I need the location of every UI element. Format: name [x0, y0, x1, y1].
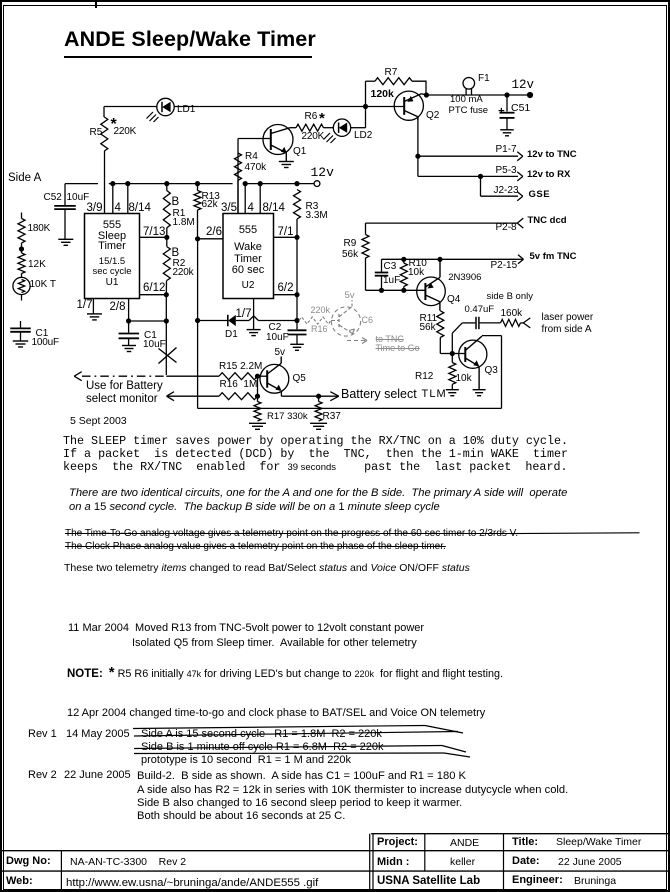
label 160k: [501, 309, 523, 320]
ground R37: [310, 423, 327, 429]
label 10uF C52: [67, 193, 90, 204]
label 3.3M: [306, 211, 328, 222]
label R12: [415, 372, 433, 383]
wire Q3 collector loop: [198, 336, 502, 409]
connector laser power fork: [523, 318, 530, 328]
label laser power: [542, 313, 594, 324]
label R15 2.2M: [219, 362, 262, 373]
label 7/1: [278, 226, 294, 238]
strike lines Rev1 side A: [133, 726, 463, 737]
ghost transistor Q6 (erased): [331, 300, 361, 336]
wire Q1 base from R4: [238, 139, 264, 154]
resistor R16: [219, 393, 258, 400]
label J2-23: [494, 186, 519, 197]
label Midn: [377, 857, 409, 869]
ground R12: [446, 390, 459, 396]
label 0.47uF: [465, 305, 495, 315]
label 56k R9: [342, 250, 358, 261]
value Bruninga: [574, 876, 616, 887]
label R1: [173, 209, 186, 220]
value ANDE: [450, 838, 479, 849]
value web url: [66, 877, 318, 889]
label Q5: [293, 374, 306, 385]
label 5v Q5: [275, 348, 286, 359]
diode D1: [228, 315, 236, 327]
wire D1 to hop: [236, 320, 249, 322]
transistor Q1: [263, 125, 293, 162]
junction dot 7/13-R1-R2: [164, 235, 169, 240]
label Use for Battery: [86, 380, 163, 392]
label Q2: [426, 111, 439, 122]
resistor R9: [362, 223, 369, 290]
label 120k R7: [371, 89, 394, 100]
label from side A: [542, 325, 592, 336]
capacitor C2: [288, 321, 307, 345]
label Date: [512, 856, 540, 868]
wire U1 pin6/12: [140, 294, 167, 296]
fuse F1: [463, 78, 475, 96]
label Dwg No: [6, 856, 51, 868]
paragraph two identical circuits (italic): [69, 487, 567, 514]
junction dot R10 bottom: [401, 288, 406, 293]
node 12v open circle: [314, 181, 320, 187]
label 56k R11: [420, 323, 436, 334]
label F1: [478, 74, 490, 85]
label LD1: [177, 105, 195, 116]
capacitor C51: [500, 95, 515, 130]
resistor R17: [254, 401, 261, 421]
label 12v top: [512, 79, 535, 93]
label 12v mid: [311, 166, 334, 180]
wire hop to C2: [258, 320, 297, 322]
resistor 180K: [18, 219, 25, 250]
label R6 asterisk: [319, 111, 325, 127]
telemetry changed note: [64, 563, 470, 574]
resistor R11: [437, 311, 453, 354]
label R11: [420, 314, 438, 325]
transistor Q4: [417, 259, 446, 311]
date 5 Sept 2003: [70, 416, 127, 427]
resistor R37: [315, 396, 322, 421]
wire U1 pin7/13: [140, 236, 167, 238]
junction dot Q2 emitter node: [424, 92, 429, 97]
strike line extension telemetry: [510, 532, 640, 535]
wire Q2 collector down: [417, 117, 419, 177]
junction dot 6/2: [294, 292, 299, 297]
wire R15/R16 junction vertical: [257, 376, 259, 401]
label 5v fm TNC: [530, 252, 577, 262]
ghost label 220k: [311, 306, 331, 316]
value Sleep/Wake Timer: [556, 837, 641, 848]
wire Q3 base: [452, 353, 465, 355]
capacitor 0.47uF: [462, 317, 500, 329]
label 8/14 U1: [129, 202, 151, 214]
junction dot C2 node: [294, 318, 299, 323]
junction dot C1 right: [164, 318, 169, 323]
junction dot J2-23 branch: [478, 174, 483, 179]
junction dot R13: [195, 181, 200, 186]
resistor R3: [294, 190, 301, 238]
label 1/7 U1: [77, 299, 93, 311]
ground Q3 emitter: [473, 390, 486, 396]
Rev 2 row: [28, 770, 57, 782]
label Q4: [447, 295, 460, 306]
note 11 Mar 2004: [68, 623, 424, 635]
ground U1 pin1/7: [87, 314, 102, 320]
label Battery select: [341, 388, 417, 402]
junction dot C51: [504, 92, 509, 97]
ground Q1 emitter: [279, 162, 294, 168]
resistor R2: [163, 237, 170, 294]
transistor Q5: [258, 357, 289, 394]
label R2: [173, 259, 186, 270]
junction dot R16 node: [255, 394, 260, 399]
label R7: [385, 68, 398, 79]
resistor 12K: [18, 249, 25, 274]
wire R3 node down: [296, 237, 298, 320]
resistor R1: [163, 184, 170, 238]
label U2 box text2: [223, 242, 273, 276]
label C3: [384, 262, 397, 273]
label 4 U1: [115, 202, 121, 214]
label R17 330k: [267, 412, 308, 422]
wire R4 drop to U2 pin3/5: [237, 153, 239, 214]
ghost label C6: [362, 316, 374, 326]
label 6/2: [278, 282, 294, 294]
label R9: [344, 239, 357, 250]
plus sign C51: [499, 108, 505, 114]
label 100uF: [32, 338, 59, 349]
border tick artifact: [95, 0, 98, 8]
label TNC dcd: [528, 216, 567, 226]
label 2/6: [206, 226, 222, 238]
resistor R6: [290, 124, 324, 131]
wire P2-8 TNC dcd: [366, 218, 524, 228]
junction dot Q3 base node: [450, 351, 455, 356]
label 180K: [28, 224, 51, 235]
label 4 U2: [248, 202, 254, 214]
label Q1: [293, 147, 306, 158]
label P2-15: [491, 261, 518, 272]
label R3: [306, 202, 319, 213]
paragraph SLEEP timer description: [63, 435, 568, 475]
wire LD2 to node: [351, 81, 366, 128]
junction dot pin8/14 U1: [125, 181, 130, 186]
capacitor C1 100uF: [10, 321, 31, 341]
ghost label 5v: [345, 291, 355, 301]
label B R1: [172, 196, 180, 208]
X cross-out mark: [159, 348, 177, 364]
resistor R5: [101, 117, 108, 151]
label Title: [512, 837, 538, 849]
label 10k R12: [456, 374, 472, 385]
label U1 refdes: [85, 278, 140, 289]
junction dot 2/8-C1: [126, 318, 131, 323]
wire R5 drop: [103, 107, 106, 214]
label 1.8M: [173, 218, 195, 229]
wire 5v fm TNC: [382, 255, 524, 264]
ghost wire arrow (erased): [347, 338, 367, 344]
label 220k R2: [173, 268, 194, 279]
label USNA Satellite Lab: [377, 875, 480, 887]
label 220K R6: [302, 132, 325, 143]
capacitor C52: [54, 184, 76, 239]
label P1-7: [496, 145, 517, 156]
wire R15 left: [166, 375, 219, 377]
transistor Q3: [459, 336, 487, 389]
junction dot D1 node: [195, 318, 200, 323]
label 62k: [202, 200, 218, 211]
struck-out telemetry paragraph: [65, 527, 518, 553]
resistor R10: [400, 259, 407, 290]
label R4: [245, 152, 258, 163]
wire Q5 emitter to TLM: [281, 390, 338, 400]
IC U1 555 Sleep Timer box: [85, 214, 140, 299]
IC U2 555 Wake Timer box: [223, 214, 274, 299]
label 2/8: [110, 301, 126, 313]
wire U1 pin4: [112, 184, 114, 214]
junction dot 180K/12K: [19, 246, 24, 251]
thermistor 10K T: [13, 274, 30, 301]
label C1 10uF: [144, 331, 157, 342]
label 10uF C1: [143, 340, 166, 351]
wire U2 pin2/6: [198, 238, 223, 240]
label U2 box text: [223, 225, 273, 237]
title block grid: [2, 834, 669, 890]
label 1uF: [383, 276, 400, 287]
resistor R12: [449, 354, 456, 390]
ground U2 pin1/7: [247, 330, 261, 336]
junction dot R1: [164, 181, 169, 186]
junction dot 7/1-R3: [294, 235, 299, 240]
label 10k R10: [408, 268, 424, 279]
label C1 100uF: [36, 329, 49, 340]
note 12 Apr 2004: [67, 708, 485, 720]
capacitor C1 10uF: [119, 321, 140, 345]
label P2-8: [496, 223, 517, 234]
wire 12v bus: [65, 183, 314, 185]
wire D1 left: [198, 320, 228, 322]
wire 2/8 to R2 node: [129, 320, 167, 322]
label C2: [269, 323, 282, 334]
junction dot pin4 U2: [243, 181, 248, 186]
label C51: [511, 103, 530, 114]
junction dot P1-7: [415, 154, 420, 159]
label 2N3906: [448, 273, 481, 283]
label R5: [90, 128, 103, 139]
resistor R13: [194, 184, 201, 239]
wire U1 pin8/14: [127, 184, 129, 214]
resistor R15: [219, 373, 258, 380]
label 8/14 U2: [263, 202, 285, 214]
NOTE R5 R6 line: [67, 665, 503, 681]
resistor R7: [366, 78, 427, 95]
label R37: [323, 412, 341, 423]
resistor 160k: [501, 319, 524, 326]
ground C2: [290, 344, 304, 350]
Rev 1 row: [28, 729, 57, 741]
wire use-for-battery dash-dot: [74, 372, 166, 381]
junction dot 6/12: [164, 292, 169, 297]
wire R9 to C3 node: [366, 289, 425, 291]
value 22 June 2005: [558, 857, 622, 868]
wire R16 arrow: [167, 392, 220, 401]
label U2 refdes: [223, 281, 273, 292]
junction dot Q4 emitter top: [437, 257, 442, 262]
junction dot R10 top: [401, 257, 406, 262]
wire LD1 top rail: [104, 106, 404, 108]
label 12K: [28, 260, 46, 271]
label R13: [202, 192, 220, 203]
ground C1 100uF: [13, 341, 29, 347]
label P5-3: [496, 166, 517, 177]
label U1 cycle text: [85, 257, 140, 276]
wire U1 pin1/7: [92, 299, 94, 314]
label Engineer: [512, 875, 563, 887]
label B R2: [172, 247, 180, 259]
transistor Q2: [394, 91, 426, 120]
junction dot R3: [294, 181, 299, 186]
ghost label to TNC: [376, 335, 404, 345]
value NA-AN-TC-3300: [70, 857, 186, 868]
label D1: [225, 330, 238, 341]
value keller: [450, 857, 475, 868]
wire U2 pin4: [244, 184, 246, 214]
label 6/12: [143, 282, 165, 294]
label 1/7 U2: [236, 308, 252, 320]
ghost label Time to Go: [376, 344, 420, 354]
junction dot pin8/14 U2: [258, 181, 263, 186]
label R16 1M: [220, 380, 258, 391]
label Side A: [8, 172, 41, 184]
label Web: [6, 876, 33, 888]
label 10uF C2: [266, 333, 289, 344]
label 7/13: [143, 226, 165, 238]
title underline: [64, 56, 312, 59]
wire U2 pin8/14: [259, 184, 261, 214]
wire J2-23: [481, 176, 523, 200]
label 12v to RX: [527, 170, 570, 180]
junction dot LD2/Q2 node: [363, 104, 368, 109]
label PTC fuse: [449, 106, 489, 116]
wire P1-7: [418, 152, 523, 161]
junction dot 2/6: [195, 236, 200, 241]
ghost resistor R16 (erased): [299, 317, 331, 324]
wire cap to Q3 base node: [452, 323, 462, 354]
label 100 mA: [450, 95, 483, 105]
label 470k: [245, 163, 267, 174]
wire R13 node down: [197, 239, 199, 321]
label U1 box text: [85, 220, 140, 252]
junction dot pin4 U1: [110, 181, 115, 186]
label 12v to TNC: [527, 150, 577, 160]
junction dot C3 bottom: [379, 288, 384, 293]
LED LD1: [147, 98, 175, 122]
label LD2: [354, 131, 372, 142]
LED LD2: [324, 119, 351, 143]
wire 12v rail: [426, 94, 528, 96]
label Q3: [485, 366, 498, 377]
resistor R4: [235, 153, 242, 214]
wire left loop down: [197, 321, 199, 409]
label R5 asterisk: [111, 116, 117, 133]
label 10K T: [30, 280, 57, 291]
label 220K R5: [114, 127, 137, 138]
wire 180K stub: [21, 213, 23, 219]
node 12v end dot: [527, 92, 533, 98]
ground R17: [249, 423, 266, 429]
ground C1 10uF: [122, 346, 136, 352]
wire U2 pin6/2: [274, 294, 298, 296]
strike lines Rev1 side B: [134, 746, 470, 758]
wire U2 pin7/1: [274, 236, 298, 238]
label 3/5: [221, 202, 237, 214]
wire U1 pin2/8: [128, 299, 130, 322]
junction dot R37 top: [316, 394, 321, 399]
label R6: [305, 112, 318, 123]
label R10: [409, 259, 427, 270]
label TLM: [422, 389, 447, 401]
label side B only: [487, 292, 533, 302]
label select monitor: [86, 393, 158, 405]
wire P5-3: [418, 172, 523, 181]
wire U2 pin1/7: [253, 299, 255, 330]
label C52: [44, 193, 62, 204]
wire hop over U2 pin1/7: [249, 316, 258, 321]
ground C52: [58, 239, 73, 245]
wire R2 node down: [165, 295, 167, 375]
ground C51: [500, 130, 514, 136]
label 3/9: [87, 202, 103, 214]
ghost label R16: [311, 325, 328, 335]
capacitor C3: [375, 259, 389, 290]
title text: [64, 28, 316, 51]
junction dot R15-Q5 base: [255, 374, 260, 379]
label GSE: [529, 190, 551, 200]
label Project: [377, 837, 418, 849]
